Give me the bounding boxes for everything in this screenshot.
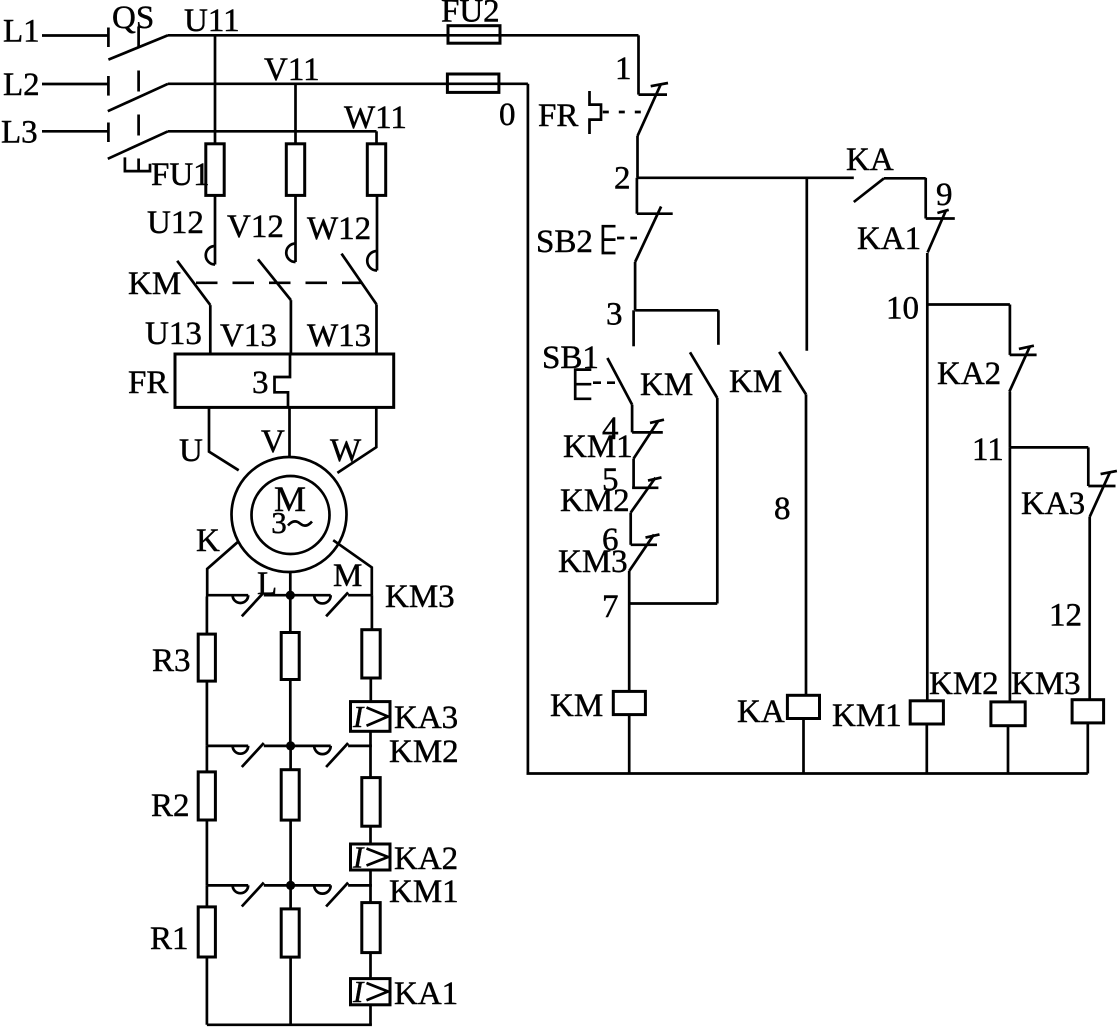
contact KA3 NC	[1088, 471, 1117, 517]
label node 8	[774, 491, 791, 527]
wire K column mid1	[206, 681, 209, 746]
wire node 2 bus	[637, 176, 854, 179]
svg-text:KA: KA	[737, 694, 785, 730]
contactor KM main contact V fixed	[286, 244, 295, 263]
svg-text:V11: V11	[264, 52, 320, 88]
wire KM3 coil to rail	[1086, 723, 1089, 774]
contactor KM3 contact a	[233, 592, 264, 616]
contact KM1 NC interlock	[632, 420, 664, 459]
wire V11 bus	[168, 82, 528, 85]
node L2 terminal tick	[107, 76, 110, 96]
contact KM aux blade (branch 8)	[779, 352, 806, 395]
contactor coil KM	[613, 691, 645, 714]
wire W11 drop	[375, 131, 378, 144]
wire self-hold lower	[716, 398, 719, 604]
current relay coil KA1	[351, 974, 391, 1009]
node L3 terminal tick	[107, 123, 110, 143]
contact KM self-hold label	[640, 367, 693, 403]
label KA contact	[846, 142, 894, 178]
label node 1	[615, 51, 632, 87]
label KM coil	[550, 688, 603, 724]
wire M column lower	[369, 1005, 372, 1025]
svg-text:KM: KM	[128, 266, 181, 302]
label R1	[150, 921, 189, 957]
label KA2 contact	[937, 356, 1001, 392]
wire 2-3 segment	[634, 262, 637, 310]
svg-text:V: V	[261, 424, 285, 460]
svg-text:KA3: KA3	[394, 700, 458, 736]
label node 7	[602, 589, 619, 625]
wire L1 phase lead-in	[42, 34, 108, 37]
label node 5	[602, 462, 619, 498]
svg-text:SB1: SB1	[542, 340, 599, 376]
svg-text:KM3: KM3	[558, 544, 628, 580]
thermal relay FR box	[175, 354, 394, 407]
wire rotor K lead	[207, 542, 238, 597]
fuse FU2 label	[441, 0, 500, 30]
svg-text:KM: KM	[640, 367, 693, 403]
svg-text:FU1: FU1	[151, 157, 210, 193]
wire node 7 bus	[629, 602, 717, 605]
wire L3 phase lead-in	[42, 130, 108, 133]
pushbutton SB1 blade	[607, 358, 632, 405]
label W	[330, 433, 362, 469]
fuse FU1 phase U	[206, 144, 224, 196]
contactor KM main contact U fixed	[206, 246, 215, 265]
switch QS label	[112, 0, 154, 36]
wire branch 8 upper	[805, 178, 808, 351]
svg-text:KM1: KM1	[832, 698, 902, 734]
wire 1-2 segment	[636, 136, 639, 178]
resistor L-column 3	[281, 909, 299, 957]
label node 3	[606, 297, 623, 333]
switch QS handle bracket	[125, 157, 150, 171]
svg-text:SB2: SB2	[536, 224, 593, 260]
node junction row 2	[286, 741, 295, 750]
thermal relay FR trip actuator	[590, 91, 602, 134]
label KA2 coil	[394, 841, 458, 877]
contactor coil KM2	[991, 702, 1025, 726]
svg-text:FR: FR	[538, 98, 578, 134]
svg-text:I: I	[352, 840, 365, 875]
svg-text:KA3: KA3	[1021, 486, 1085, 522]
wire KA3 to KM3 coil	[1088, 517, 1091, 700]
contactor KM2 contact b	[314, 743, 348, 767]
label V12	[227, 209, 284, 245]
svg-text:W11: W11	[344, 100, 407, 136]
pushbutton SB2 label	[536, 224, 593, 260]
svg-text:V13: V13	[220, 318, 277, 354]
svg-text:3: 3	[271, 505, 287, 540]
label KM1 interlock	[563, 429, 633, 465]
svg-text:W12: W12	[307, 211, 371, 247]
svg-text:V12: V12	[227, 209, 284, 245]
wire M column seg5	[369, 953, 372, 979]
wire KA to corner	[884, 177, 926, 180]
contact KM2 NC interlock	[631, 477, 662, 512]
label U11	[184, 3, 240, 39]
contact KM3 NC interlock	[629, 534, 659, 571]
thermal relay FR trip contact	[638, 83, 669, 136]
label KA1 coil	[394, 976, 458, 1012]
svg-text:U13: U13	[145, 316, 202, 352]
label KM3 interlock	[558, 544, 628, 580]
resistor R1	[198, 907, 215, 957]
wire L column mid1	[289, 680, 292, 746]
label node 0	[499, 97, 516, 133]
svg-text:2: 2	[614, 161, 631, 197]
svg-text:R1: R1	[150, 921, 189, 957]
wire KM coil lead	[628, 604, 631, 692]
fuse FU2 (lower)	[447, 74, 499, 92]
contactor KM main label	[128, 266, 181, 302]
contactor KM main contact W blade	[342, 254, 377, 305]
svg-text:U12: U12	[147, 205, 204, 241]
thermal relay FR trip label	[538, 98, 578, 134]
contactor KM3 contact b	[314, 592, 348, 616]
wire V11 drop	[294, 84, 297, 144]
label node 4	[602, 411, 619, 447]
thermal relay FR heater element	[275, 356, 291, 407]
label KA1 contact	[857, 221, 921, 257]
pushbutton SB2 dashes	[617, 237, 637, 240]
motor M inner circle	[252, 476, 330, 554]
wire rotor L lead	[289, 572, 292, 591]
wire U motor lead	[209, 407, 239, 470]
motor M outer circle	[232, 457, 347, 572]
pushbutton SB2 operator	[603, 226, 616, 253]
wire 6 segment	[629, 513, 632, 545]
pushbutton SB2 fixed bar	[637, 212, 673, 215]
wire M column seg1	[369, 678, 372, 702]
wire rotor row 2	[207, 745, 372, 748]
resistor L-column 2	[281, 770, 299, 820]
contactor coil KM1	[910, 701, 943, 724]
svg-text:KM1: KM1	[389, 874, 459, 910]
wire V motor lead	[288, 407, 291, 458]
switch QS blade L1	[108, 35, 168, 59]
wire node 11 bus	[1010, 446, 1088, 449]
resistor L-column 1	[281, 633, 299, 680]
svg-text:U11: U11	[184, 3, 240, 39]
svg-text:R3: R3	[152, 643, 191, 679]
wire K column upper	[206, 597, 209, 635]
wire U11 bus	[168, 34, 639, 37]
wire bottom control rail	[527, 772, 1088, 775]
text L3	[1, 115, 38, 151]
contactor coil KM3	[1072, 700, 1104, 723]
wire M column upper	[371, 595, 374, 630]
svg-text:L3: L3	[1, 115, 38, 151]
label W13	[307, 318, 371, 354]
svg-text:KM1: KM1	[563, 429, 633, 465]
wire U12 segment	[214, 195, 217, 264]
svg-text:KA2: KA2	[394, 841, 458, 877]
label KA3 coil	[394, 700, 458, 736]
wire KM coil to rail	[628, 715, 631, 774]
current relay coil KA2	[351, 840, 391, 875]
pushbutton SB1 operator	[575, 370, 591, 399]
wire L2 phase lead-in	[42, 83, 108, 86]
wire node 3 bus	[635, 309, 718, 312]
svg-text:W13: W13	[307, 318, 371, 354]
svg-text:9: 9	[936, 177, 953, 213]
label R3	[152, 643, 191, 679]
label U13	[145, 316, 202, 352]
wire rotor bottom bus	[207, 1023, 372, 1026]
wire control feed drop	[637, 35, 640, 94]
label W11	[344, 100, 407, 136]
wire corner down to 9	[924, 178, 927, 219]
label KM3 coil	[1011, 666, 1081, 702]
pushbutton SB1 upper lead	[632, 310, 635, 346]
label U12	[147, 205, 204, 241]
svg-text:QS: QS	[112, 0, 154, 36]
wire KM2 coil to rail	[1007, 726, 1010, 774]
label node 6	[602, 522, 619, 558]
contact KM aux label (branch 8)	[729, 364, 782, 400]
contactor KM main contact W fixed	[367, 251, 377, 271]
wire L column mid2	[289, 746, 292, 770]
wire 9-10 segment	[926, 253, 929, 305]
contactor KM main contact V blade	[258, 259, 291, 300]
svg-text:U: U	[179, 433, 203, 469]
contact KA NO blade	[854, 178, 884, 202]
wire KA2 branch upper	[1009, 305, 1012, 355]
svg-text:KM: KM	[729, 364, 782, 400]
svg-text:L2: L2	[3, 67, 40, 103]
fuse FU1 phase W	[367, 144, 385, 196]
label KA coil	[737, 694, 785, 730]
contactor KM main contact U blade	[177, 261, 210, 305]
fuse FU2 (upper)	[448, 26, 500, 44]
svg-text:L1: L1	[3, 14, 40, 50]
label W12	[307, 211, 371, 247]
wire KA3 branch upper	[1087, 447, 1090, 486]
relay coil KA	[787, 695, 819, 718]
contact KM self-hold blade	[690, 352, 717, 398]
contact KA2 NC	[1009, 346, 1036, 392]
wire M column seg4	[369, 870, 372, 903]
wire K column mid2	[206, 746, 209, 772]
label KM2 interlock	[560, 483, 630, 519]
svg-text:KA1: KA1	[857, 221, 921, 257]
node L1 terminal tick	[107, 28, 110, 48]
label KM2 coil	[929, 666, 999, 702]
resistor M-column 1	[362, 630, 380, 678]
svg-text:KM3: KM3	[1011, 666, 1081, 702]
label KM2 contacts	[389, 734, 459, 770]
svg-text:10: 10	[886, 291, 919, 327]
contact KA1 NC	[926, 210, 955, 253]
wire W13 segment	[375, 304, 378, 355]
node junction row 3	[286, 881, 295, 890]
resistor R2	[198, 772, 215, 820]
wire K column lower	[206, 957, 209, 1025]
resistor M-column 3	[362, 903, 380, 953]
wire KA coil to rail	[802, 719, 805, 774]
svg-text:I: I	[352, 699, 365, 734]
label V13	[220, 318, 277, 354]
label K	[196, 523, 220, 559]
wire M column seg2	[369, 731, 372, 777]
svg-text:12: 12	[1049, 598, 1082, 634]
label KM1 contacts	[389, 874, 459, 910]
text L1	[3, 14, 40, 50]
contactor KM2 contact a	[233, 743, 264, 767]
label M rotor	[333, 558, 362, 594]
wire W11 bus	[168, 130, 377, 133]
svg-text:I: I	[352, 974, 365, 1009]
motor label M	[274, 479, 306, 519]
thermal relay FR label	[128, 365, 168, 401]
wire node 10 bus	[927, 303, 1010, 306]
label L	[257, 566, 277, 602]
wire M column seg3	[369, 826, 372, 844]
svg-text:KM3: KM3	[385, 579, 455, 615]
switch QS linkage (dashed)	[137, 27, 140, 172]
svg-text:3: 3	[252, 365, 269, 401]
pushbutton SB1 dashes	[593, 381, 620, 384]
thermal relay heater count label 3	[252, 365, 269, 401]
svg-text:KA2: KA2	[937, 356, 1001, 392]
svg-text:7: 7	[602, 589, 619, 625]
label node 11	[972, 432, 1004, 468]
wire U13 segment	[209, 305, 212, 355]
svg-text:0: 0	[499, 97, 516, 133]
wire W motor lead	[337, 407, 376, 473]
label R2	[151, 788, 190, 824]
fuse FU1 phase V	[286, 144, 304, 196]
motor label 3~	[271, 505, 312, 540]
wire V12 segment	[294, 195, 297, 262]
svg-text:11: 11	[972, 432, 1004, 468]
svg-text:K: K	[196, 523, 220, 559]
wire rotor row 1	[207, 594, 372, 597]
wire L column mid4	[289, 885, 292, 909]
svg-text:KA1: KA1	[394, 976, 458, 1012]
label U	[179, 433, 203, 469]
contactor KM1 contact b	[314, 883, 348, 907]
pushbutton SB2 upper lead	[636, 178, 639, 214]
svg-text:M: M	[333, 558, 362, 594]
label node 9	[936, 177, 953, 213]
pushbutton SB1 label	[542, 340, 599, 376]
wire 7 segment	[628, 571, 631, 604]
wire U11 drop	[214, 35, 217, 144]
wire 5 segment	[632, 459, 635, 488]
wire W12 segment	[376, 195, 379, 270]
svg-text:W: W	[330, 433, 362, 469]
fuse FU1 label	[151, 157, 210, 193]
wire branch 8 lower	[805, 394, 808, 695]
contactor KM linkage (dashed)	[196, 281, 362, 284]
switch QS blade L3	[108, 131, 168, 159]
wire 4 segment	[631, 405, 634, 433]
contactor KM1 contact a	[233, 883, 264, 907]
node junction row 1	[286, 591, 295, 600]
wire V13 segment	[290, 300, 293, 355]
label KM3 contacts	[385, 579, 455, 615]
svg-text:KM2: KM2	[389, 734, 459, 770]
svg-text:FR: FR	[128, 365, 168, 401]
svg-text:KM2: KM2	[929, 666, 999, 702]
thermal relay FR trip dashes	[603, 111, 646, 114]
label node 10	[886, 291, 919, 327]
wire K column mid4	[206, 885, 209, 907]
wire neutral rail 0 (left)	[527, 84, 530, 774]
svg-text:8: 8	[774, 491, 791, 527]
resistor M-column 2	[362, 778, 380, 827]
wire K column mid3	[206, 820, 209, 885]
switch QS blade L2	[108, 84, 168, 111]
wire rotor M lead	[333, 540, 372, 595]
wire L column lower	[289, 957, 292, 1025]
wire KM1 coil to rail	[925, 724, 928, 774]
pushbutton SB2 blade	[635, 207, 661, 263]
label V11	[264, 52, 320, 88]
text L2	[3, 67, 40, 103]
label KA3 contact	[1021, 486, 1085, 522]
wire L column mid3	[289, 820, 292, 885]
svg-text:KA: KA	[846, 142, 894, 178]
wire KA2 to 11	[1009, 392, 1012, 448]
resistor R3	[198, 634, 215, 681]
svg-text:KM2: KM2	[560, 483, 630, 519]
label node 2	[614, 161, 631, 197]
svg-text:3: 3	[606, 297, 623, 333]
wire KM1 coil branch	[926, 305, 929, 701]
contact KM self-hold upper lead	[717, 310, 720, 345]
wire KM2 coil branch	[1009, 447, 1012, 702]
current relay coil KA3	[351, 699, 391, 734]
label KM1 coil	[832, 698, 902, 734]
svg-text:1: 1	[615, 51, 632, 87]
label V	[261, 424, 285, 460]
svg-text:KM: KM	[550, 688, 603, 724]
wire L column upper	[289, 595, 292, 632]
wire rotor row 3	[207, 884, 372, 887]
svg-text:R2: R2	[151, 788, 190, 824]
label node 12	[1049, 598, 1082, 634]
